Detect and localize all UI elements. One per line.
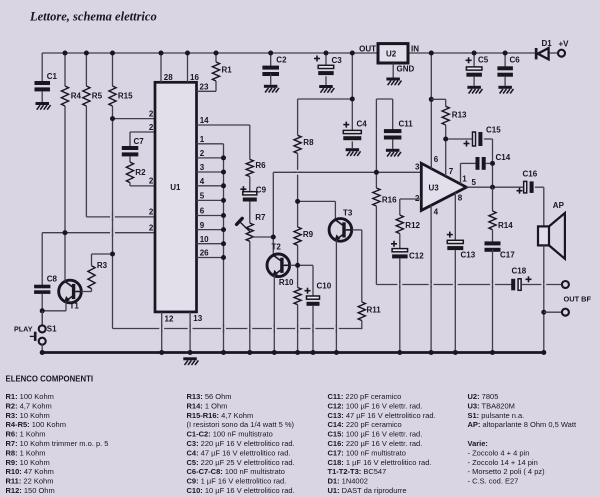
svg-text:C14: C14 bbox=[496, 153, 511, 162]
svg-text:C13: 47 µF 16 V elettrolitico: C13: 47 µF 16 V elettrolitico rad. bbox=[328, 411, 436, 420]
svg-text:C17: C17 bbox=[500, 251, 515, 260]
resistor R11 bbox=[361, 230, 363, 302]
svg-text:9: 9 bbox=[200, 221, 205, 230]
svg-text:R10: 47 Kohm: R10: 47 Kohm bbox=[6, 467, 54, 476]
resistor R6 bbox=[249, 125, 251, 159]
svg-text:C18: 1 µF 16 V elettrolitico r: C18: 1 µF 16 V elettrolitico rad. bbox=[328, 458, 432, 467]
svg-text:7: 7 bbox=[449, 167, 454, 176]
svg-text:C5: C5 bbox=[478, 56, 489, 65]
svg-text:+V: +V bbox=[559, 40, 570, 49]
svg-text:R11: R11 bbox=[367, 306, 382, 315]
ground of C2 bbox=[264, 85, 278, 88]
wire: U1 pin 16 to rail bbox=[187, 53, 189, 82]
capacitor C17 bbox=[485, 241, 501, 245]
svg-text:C18: C18 bbox=[512, 267, 527, 276]
ground of C1 bbox=[36, 102, 50, 105]
resistor R1 bbox=[215, 53, 217, 62]
svg-text:5: 5 bbox=[200, 192, 205, 201]
svg-text:R13: 56 Ohm: R13: 56 Ohm bbox=[187, 392, 232, 401]
wire: C11 link to input node bbox=[376, 98, 392, 100]
svg-text:R6: 1 Kohm: R6: 1 Kohm bbox=[6, 430, 46, 439]
svg-text:R8: 1 Kohm: R8: 1 Kohm bbox=[6, 448, 46, 457]
wire: speaker to ground bus bbox=[543, 245, 545, 352]
svg-text:R3: R3 bbox=[97, 261, 108, 270]
svg-text:U3: TBA820M: U3: TBA820M bbox=[468, 401, 515, 410]
svg-text:C6-C7-C8: 100 nF multistrato: C6-C7-C8: 100 nF multistrato bbox=[187, 467, 285, 476]
svg-text:R10: R10 bbox=[279, 278, 294, 287]
capacitor C4 bbox=[343, 130, 361, 133]
capacitor C7 bbox=[122, 146, 139, 150]
svg-text:- Zoccolo 4 + 4 pin: - Zoccolo 4 + 4 pin bbox=[468, 448, 530, 457]
voltage regulator U2 bbox=[378, 44, 408, 63]
capacitor C12 bbox=[392, 249, 408, 252]
svg-text:28: 28 bbox=[164, 73, 173, 82]
svg-text:3: 3 bbox=[200, 163, 205, 172]
wire: bottom horizontal net to R11 bbox=[113, 328, 362, 330]
svg-text:C2: C2 bbox=[276, 56, 287, 65]
junction dots on rail bbox=[63, 51, 68, 56]
wire: T2 base bbox=[290, 264, 298, 266]
resistor R2 bbox=[129, 156, 131, 162]
IC U1 bbox=[155, 82, 197, 312]
wire: C4 node vertical bbox=[351, 53, 353, 130]
resistor R10 bbox=[297, 265, 299, 287]
svg-text:R2: R2 bbox=[135, 168, 146, 177]
wire: T3 collector link bbox=[298, 200, 336, 202]
svg-text:16: 16 bbox=[190, 73, 199, 82]
capacitor C10 bbox=[298, 264, 313, 266]
svg-text:C9: 1 µF 16 V elettrolitico ra: C9: 1 µF 16 V elettrolitico rad. bbox=[187, 477, 287, 486]
svg-text:4: 4 bbox=[434, 208, 439, 217]
svg-text:C1-C2: 100 nF multistrato: C1-C2: 100 nF multistrato bbox=[187, 430, 273, 439]
resistor R9 bbox=[297, 201, 299, 227]
wire: U3 pin 8 to C13 bbox=[454, 192, 456, 240]
terminal +V bbox=[558, 50, 565, 57]
svg-text:2: 2 bbox=[200, 149, 205, 158]
svg-text:2: 2 bbox=[149, 123, 154, 132]
wire: T1 collector to R4 node bbox=[64, 233, 66, 282]
transistor T2 bbox=[267, 254, 290, 277]
ground of C3 bbox=[319, 85, 333, 88]
capacitor C8 bbox=[41, 233, 43, 286]
wire: U1 pin 13 to ground bus bbox=[189, 312, 191, 353]
resistor R4 bbox=[64, 53, 66, 86]
wire: T2 emitter to ground bus bbox=[273, 275, 275, 353]
capacitor C18 bbox=[511, 279, 515, 291]
wire: +5V top rail bbox=[42, 52, 378, 54]
svg-text:R8: R8 bbox=[303, 138, 314, 147]
svg-text:10: 10 bbox=[200, 235, 209, 244]
svg-text:S1: pulsante n.a.: S1: pulsante n.a. bbox=[468, 411, 525, 420]
svg-text:R4-R5: 100 Kohm: R4-R5: 100 Kohm bbox=[6, 420, 66, 429]
svg-text:ELENCO COMPONENTI: ELENCO COMPONENTI bbox=[6, 374, 94, 383]
svg-text:5: 5 bbox=[472, 178, 477, 187]
capacitor C16 bbox=[524, 181, 527, 193]
wire: U3 pin 7 bbox=[445, 139, 447, 176]
wire: U2 GND stub bbox=[392, 63, 394, 77]
svg-text:- C.S. cod. E27: - C.S. cod. E27 bbox=[468, 477, 519, 486]
svg-text:Varie:: Varie: bbox=[468, 439, 488, 448]
svg-text:2: 2 bbox=[149, 177, 154, 186]
svg-text:R1: R1 bbox=[222, 66, 233, 75]
wire: U1 pin 28 to rail bbox=[160, 53, 162, 82]
capacitor C11 bbox=[392, 99, 394, 130]
node dots bbox=[110, 116, 115, 121]
svg-text:U2: U2 bbox=[386, 50, 397, 59]
svg-text:C17: 100 nF multistrato: C17: 100 nF multistrato bbox=[328, 448, 406, 457]
svg-text:D1: D1 bbox=[542, 39, 553, 48]
ground of U2 bbox=[386, 78, 400, 81]
resistor R16 bbox=[375, 172, 377, 188]
wire: U3 pin 2 to R12 bbox=[400, 198, 422, 200]
svg-text:C1: C1 bbox=[47, 72, 58, 81]
wire: T3 emitter to ground bus bbox=[335, 240, 337, 353]
svg-text:U2: 7805: U2: 7805 bbox=[468, 392, 499, 401]
wire: U1 left pin A bbox=[113, 118, 156, 120]
svg-text:- Zoccolo 14 + 14 pin: - Zoccolo 14 + 14 pin bbox=[468, 458, 538, 467]
capacitor C2 bbox=[270, 53, 272, 66]
svg-text:C7: C7 bbox=[134, 137, 145, 146]
svg-text:AP: AP bbox=[553, 201, 565, 210]
wire: U3 pin 6 supply vertical bbox=[430, 53, 432, 169]
svg-text:R13: R13 bbox=[452, 111, 467, 120]
resistor R14 bbox=[492, 187, 494, 211]
resistor R12 bbox=[399, 199, 401, 215]
svg-text:3: 3 bbox=[415, 162, 420, 171]
svg-text:2: 2 bbox=[149, 208, 154, 217]
resistor R5 bbox=[85, 53, 87, 86]
svg-text:C4: C4 bbox=[357, 120, 368, 129]
svg-text:6: 6 bbox=[200, 207, 205, 216]
ground of C4 bbox=[346, 148, 360, 151]
svg-text:C6: C6 bbox=[510, 56, 521, 65]
wire: U1 right pins 1-26 bus bbox=[197, 143, 224, 145]
svg-text:R2: 4,7 Kohm: R2: 4,7 Kohm bbox=[6, 401, 52, 410]
svg-text:T3: T3 bbox=[343, 209, 353, 218]
ground of C11 bbox=[386, 149, 400, 152]
svg-text:AP: altoparlante 8 Ohm 0,5 Wat: AP: altoparlante 8 Ohm 0,5 Watt bbox=[468, 420, 577, 429]
svg-text:C4: 47 µF 16 V elettrolitico r: C4: 47 µF 16 V elettrolitico rad. bbox=[187, 448, 291, 457]
svg-text:R5: R5 bbox=[92, 92, 103, 101]
svg-text:U1: DAST da riprodurre: U1: DAST da riprodurre bbox=[328, 486, 407, 495]
svg-text:U3: U3 bbox=[429, 184, 440, 193]
wire: U1 left pin D from R5 bbox=[86, 216, 155, 218]
wire: T3 base to R11 bbox=[352, 229, 362, 231]
svg-text:C16: C16 bbox=[523, 170, 538, 179]
svg-text:C10: C10 bbox=[317, 282, 332, 291]
svg-text:R15: R15 bbox=[118, 92, 133, 101]
svg-text:C3: C3 bbox=[332, 56, 343, 65]
svg-text:C15: 100 µF 16 V elettr. rad.: C15: 100 µF 16 V elettr. rad. bbox=[328, 430, 423, 439]
svg-text:C16: 220 µF 16 V elettr. rad.: C16: 220 µF 16 V elettr. rad. bbox=[328, 439, 423, 448]
wire: R7 wiper bbox=[252, 236, 273, 238]
svg-text:8: 8 bbox=[458, 193, 463, 202]
svg-text:OUT BF: OUT BF bbox=[564, 295, 592, 304]
wire: long left vertical from R15 node down to bottom horizontal bbox=[112, 119, 114, 329]
svg-text:C12: C12 bbox=[409, 252, 424, 261]
svg-text:C9: C9 bbox=[256, 186, 267, 195]
svg-text:PLAY: PLAY bbox=[14, 324, 33, 333]
svg-text:S1: S1 bbox=[47, 325, 57, 334]
svg-text:R7: R7 bbox=[255, 213, 266, 222]
svg-text:12: 12 bbox=[165, 315, 174, 324]
svg-text:13: 13 bbox=[193, 314, 202, 323]
resistor R15 bbox=[112, 53, 114, 86]
op-amp U3 bbox=[421, 163, 466, 210]
svg-text:T2: T2 bbox=[272, 243, 282, 252]
wire: U1 pin 23 to R1 bbox=[197, 90, 217, 92]
capacitor C6 bbox=[504, 53, 506, 67]
svg-text:C10: 10 µF 16 V elettrolitico: C10: 10 µF 16 V elettrolitico rad. bbox=[187, 486, 295, 495]
wire: OUT BF lower terminal bbox=[544, 311, 563, 313]
speaker AP bbox=[538, 226, 549, 245]
svg-text:(I resistori sono da 1/4 watt: (I resistori sono da 1/4 watt 5 %) bbox=[187, 420, 295, 429]
svg-text:C8: C8 bbox=[47, 275, 58, 284]
wire: U1 left pin B to C7 bbox=[130, 131, 155, 133]
svg-text:R15-R16: 4,7 Kohm: R15-R16: 4,7 Kohm bbox=[187, 411, 254, 420]
svg-text:6: 6 bbox=[434, 155, 439, 164]
junction dots on ground bus bbox=[40, 350, 45, 355]
svg-text:OUT: OUT bbox=[359, 45, 376, 54]
wire: R8 top link bbox=[298, 98, 353, 100]
wire: signal line to U3 pin 3 bbox=[273, 171, 421, 173]
wire: U1 pin 14 to R6 bbox=[197, 124, 250, 126]
svg-text:26: 26 bbox=[200, 249, 209, 258]
svg-text:R4: R4 bbox=[71, 92, 82, 101]
svg-text:- Morsetto 2 poli ( 4 pz): - Morsetto 2 poli ( 4 pz) bbox=[468, 467, 546, 476]
svg-text:C14: 220 pF ceramico: C14: 220 pF ceramico bbox=[328, 420, 402, 429]
svg-text:R14: R14 bbox=[498, 221, 513, 230]
capacitor C9 bbox=[243, 192, 257, 195]
svg-text:C12: 100 µF 16 V elettr. rad.: C12: 100 µF 16 V elettr. rad. bbox=[328, 401, 423, 410]
svg-text:R7: 10 Kohm trimmer m.o. p. 5: R7: 10 Kohm trimmer m.o. p. 5 bbox=[6, 439, 109, 448]
wire: U1 left pin E from C8/R4/T1 node bbox=[42, 232, 155, 234]
svg-text:R12: 150 Ohm: R12: 150 Ohm bbox=[6, 486, 55, 495]
capacitor C15 bbox=[446, 138, 473, 140]
svg-text:R9: R9 bbox=[303, 230, 314, 239]
capacitor C1 bbox=[41, 53, 43, 82]
svg-text:GND: GND bbox=[397, 65, 415, 74]
svg-text:R14: 1 Ohm: R14: 1 Ohm bbox=[187, 401, 228, 410]
svg-text:14: 14 bbox=[200, 116, 209, 125]
terminal OUT BF+ bbox=[562, 281, 569, 288]
svg-text:IN: IN bbox=[411, 45, 419, 54]
svg-text:D1: 1N4002: D1: 1N4002 bbox=[328, 477, 368, 486]
svg-text:R1: 100 Kohm: R1: 100 Kohm bbox=[6, 392, 54, 401]
svg-text:U1: U1 bbox=[170, 183, 181, 192]
svg-text:R11: 22 Kohm: R11: 22 Kohm bbox=[6, 477, 54, 486]
svg-text:C15: C15 bbox=[486, 126, 501, 135]
svg-text:T1-T2-T3: BC547: T1-T2-T3: BC547 bbox=[328, 467, 387, 476]
svg-text:R16: R16 bbox=[382, 196, 397, 205]
wire: T1 emitter bbox=[65, 301, 67, 311]
capacitor C3 bbox=[325, 53, 327, 65]
svg-text:C5: 220 µF 25 V elettrolitico: C5: 220 µF 25 V elettrolitico rad. bbox=[187, 458, 295, 467]
resistor R3 bbox=[91, 289, 93, 292]
trimmer R7 bbox=[246, 223, 253, 241]
diode D1 bbox=[535, 48, 538, 59]
svg-text:2: 2 bbox=[149, 224, 154, 233]
transistor T3 bbox=[329, 219, 352, 242]
svg-text:C3: 220 µF 16 V elettrolitico: C3: 220 µF 16 V elettrolitico rad. bbox=[187, 439, 295, 448]
wire crossing gaps bbox=[110, 216, 115, 219]
terminal OUT BF- bbox=[562, 309, 569, 316]
svg-text:Lettore, schema elettrico: Lettore, schema elettrico bbox=[29, 10, 157, 24]
ground bus bbox=[42, 351, 546, 354]
switch S1 bbox=[40, 308, 45, 313]
capacitor C14 bbox=[461, 162, 477, 164]
resistor R8 bbox=[297, 99, 299, 135]
svg-text:R6: R6 bbox=[255, 161, 266, 170]
svg-text:C11: 220 pF ceramico: C11: 220 pF ceramico bbox=[328, 392, 402, 401]
svg-text:1: 1 bbox=[462, 174, 467, 183]
svg-text:R3: 10 Kohm: R3: 10 Kohm bbox=[6, 411, 50, 420]
wire: feedback line to C18 bbox=[376, 284, 512, 286]
svg-text:1: 1 bbox=[200, 135, 205, 144]
ground of C6 bbox=[498, 86, 512, 89]
wire: U1 pin 12 to ground bus bbox=[161, 312, 163, 353]
transistor T1 bbox=[59, 280, 82, 303]
capacitor C13 bbox=[447, 240, 463, 243]
wire: T1 base to R3 bbox=[81, 291, 91, 293]
svg-text:23: 23 bbox=[200, 82, 209, 91]
ground symbol below bus bbox=[183, 357, 197, 360]
svg-text:C13: C13 bbox=[461, 251, 476, 260]
svg-text:C11: C11 bbox=[399, 120, 414, 129]
wire: T2 collector vertical bbox=[272, 172, 274, 255]
svg-text:R12: R12 bbox=[405, 221, 420, 230]
wire: U3 pin 4 to ground bus bbox=[430, 205, 432, 352]
svg-text:2: 2 bbox=[149, 109, 154, 118]
svg-text:4: 4 bbox=[200, 177, 205, 186]
capacitor C5 bbox=[473, 53, 475, 67]
wire: U3 output pin 5 bbox=[466, 186, 523, 188]
ground of C5 bbox=[467, 86, 481, 89]
svg-text:R9: 10 Kohm: R9: 10 Kohm bbox=[6, 458, 50, 467]
resistor R13 bbox=[431, 98, 445, 100]
svg-text:T1: T1 bbox=[70, 302, 80, 311]
